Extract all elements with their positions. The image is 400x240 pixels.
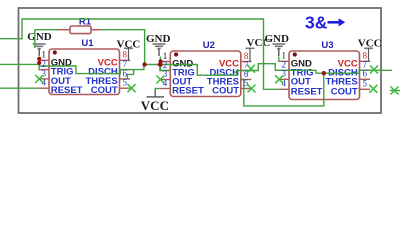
svg-text:COUT: COUT — [91, 85, 118, 96]
svg-text:COUT: COUT — [212, 86, 239, 97]
svg-text:5: 5 — [244, 78, 249, 88]
svg-text:GND: GND — [27, 31, 52, 43]
svg-text:R1: R1 — [79, 17, 92, 28]
svg-text:U3: U3 — [321, 40, 333, 51]
svg-text:VCC: VCC — [247, 37, 271, 49]
svg-text:COUT: COUT — [331, 86, 358, 97]
svg-text:RESET: RESET — [291, 86, 323, 97]
svg-text:U2: U2 — [203, 40, 215, 51]
svg-text:RESET: RESET — [172, 86, 204, 97]
svg-text:5: 5 — [123, 78, 128, 88]
svg-text:6: 6 — [363, 69, 368, 79]
svg-text:5: 5 — [363, 79, 368, 89]
svg-text:VCC: VCC — [141, 98, 169, 113]
svg-text:4: 4 — [281, 79, 286, 89]
svg-text:RESET: RESET — [51, 85, 83, 96]
svg-text:U1: U1 — [81, 38, 94, 49]
svg-text:3&: 3& — [305, 12, 328, 32]
svg-text:GND: GND — [146, 33, 171, 45]
